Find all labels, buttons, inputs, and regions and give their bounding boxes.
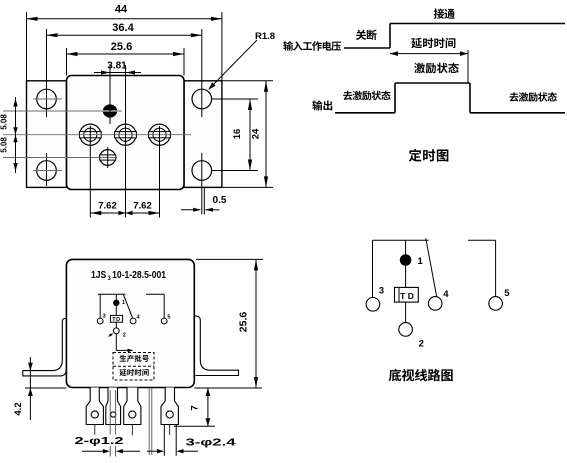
relay top view: right mounting flange — [184, 81, 222, 188]
solder lug pin A — [86, 388, 103, 425]
inner schematic: wire to pin1 dot — [115, 294, 117, 300]
hole centerlines vertical right — [201, 29, 203, 117]
svg-text:2-φ1.2: 2-φ1.2 — [75, 436, 125, 447]
inner schematic: pin4 circle — [130, 318, 136, 324]
svg-text:5: 5 — [167, 315, 170, 321]
svg-text:3.81: 3.81 — [107, 61, 127, 72]
screw terminal T3 — [149, 124, 170, 145]
svg-text:7.62: 7.62 — [98, 201, 117, 212]
svg-text:7: 7 — [190, 405, 201, 410]
circuit: pin4 — [428, 297, 442, 311]
svg-text:2: 2 — [123, 333, 126, 339]
terminal pin 2 (small screw) — [100, 150, 116, 166]
circuit: TD timer box — [395, 287, 419, 302]
pin A centerline stub — [94, 425, 96, 435]
inner schematic: top rail right — [146, 293, 164, 295]
phi1.2 wire pin (middle) — [148, 388, 150, 455]
inner schematic: polarity arrow at pin2 — [109, 334, 113, 337]
dimension 7.62 7.62 — [90, 212, 159, 214]
dashed marking box — [113, 353, 154, 381]
dimension 25.6 (front) — [196, 258, 263, 260]
svg-text:2: 2 — [419, 339, 424, 350]
label jietong (on) — [434, 9, 444, 19]
svg-text:1JS 3 10-1-28.5-001: 1JS 3 10-1-28.5-001 — [91, 269, 166, 282]
front view: right mounting bracket — [194, 316, 238, 376]
hole centerlines vertical left — [46, 29, 48, 117]
pin B phi1.2 tails — [109, 390, 111, 435]
body bottom extension right — [194, 387, 262, 389]
svg-text:7.62: 7.62 — [133, 201, 152, 212]
circuit: wire to pin3 — [372, 240, 374, 297]
timing: input low level line — [344, 47, 390, 49]
label guanduan (off) — [356, 30, 366, 40]
circuit: pin3 — [366, 298, 380, 312]
inner schematic: pin1 movable contact dot — [113, 300, 119, 306]
dimension 25.6 — [66, 48, 68, 76]
dimension 0.5 — [203, 188, 205, 215]
svg-text:T D: T D — [400, 291, 414, 301]
solder lug pin D — [161, 388, 178, 425]
lug bottom extension — [174, 425, 215, 427]
hole centerlines horizontal left holes — [33, 98, 62, 100]
pin C centerline — [131, 425, 133, 436]
label production batch number — [120, 355, 127, 362]
dimension 36.4 — [47, 34, 202, 36]
svg-text:1: 1 — [122, 300, 125, 306]
timing: output rising edge — [394, 83, 396, 113]
svg-text:5.08: 5.08 — [0, 114, 9, 130]
mounting hole top-right — [192, 89, 212, 109]
circuit: top rail left — [373, 239, 429, 241]
dimension 7 — [207, 388, 209, 426]
circuit: wire TD to pin2 — [405, 302, 407, 322]
timing: output high level — [395, 82, 470, 84]
timing: output low right — [470, 112, 565, 114]
flange bottom extension line to 24 dim — [184, 186, 273, 188]
circuit: wire to pin5 — [495, 240, 497, 296]
circuit: pin1 dot (common) — [400, 254, 412, 266]
mounting hole bottom-right — [192, 161, 212, 181]
circuit: top rail right — [468, 239, 496, 241]
svg-text:25.6: 25.6 — [238, 312, 250, 333]
svg-text:4: 4 — [443, 289, 449, 300]
svg-text:3-φ2.4: 3-φ2.4 — [186, 438, 237, 449]
mounting hole bottom-left — [37, 161, 57, 181]
svg-text:0.5: 0.5 — [213, 195, 227, 206]
pin D centerline stub — [169, 425, 171, 436]
dimension 16 — [249, 99, 251, 171]
label input working voltage — [283, 41, 293, 51]
svg-text:1: 1 — [418, 256, 424, 267]
caption dingshitu (timing diagram) — [409, 149, 422, 162]
svg-text:3: 3 — [103, 313, 106, 319]
svg-text:3: 3 — [379, 286, 384, 297]
timing: input rising edge — [389, 24, 391, 49]
svg-text:16: 16 — [232, 129, 243, 140]
timing: output low left — [335, 112, 395, 114]
inner schematic: pin5 circle — [161, 318, 167, 324]
terminal extension lines down to 7.62 dim — [89, 126, 91, 218]
hole centerlines horizontal right holes (16 dim extensions) — [212, 98, 258, 100]
circuit: wire pin1 to TD — [405, 266, 407, 287]
dimension 3.81 — [94, 72, 141, 74]
circuit: pin5 — [489, 297, 503, 311]
pin D phi2.4 tails — [163, 425, 165, 456]
inner schematic: pin2 circle — [113, 328, 119, 334]
inner schematic: wire to pin3 — [99, 294, 101, 318]
svg-text:24: 24 — [251, 128, 262, 139]
solder lug pin B (narrow) — [106, 388, 121, 425]
mounting hole top-left — [37, 89, 57, 109]
terminal pin 1 (filled oval) — [103, 104, 117, 117]
bottom dim phi2.4 — [147, 450, 158, 452]
circuit: pin2 — [399, 323, 413, 337]
inner schematic: switch arm to pin4 — [124, 295, 133, 318]
delay time extension line — [467, 50, 469, 83]
dimension 4.2 — [29, 357, 31, 420]
label shuchu (output) — [312, 100, 322, 110]
solder lug pin C — [124, 388, 141, 425]
label qu jili zhuangtai left — [343, 91, 352, 100]
dimension 24 — [265, 81, 267, 188]
flange top extension line to 24 dim — [222, 80, 273, 82]
inner schematic: wire below pin2 with arrow — [115, 334, 117, 351]
inner schematic: top rail left — [98, 293, 125, 295]
screw terminal T1 — [80, 124, 101, 145]
screw terminal T2 — [115, 124, 136, 145]
inner schematic: wire TD to pin2 — [115, 322, 117, 328]
svg-text:44: 44 — [115, 4, 128, 16]
caption bottom-view circuit diagram — [389, 369, 402, 382]
relay top view: left mounting flange — [27, 81, 67, 188]
circuit: switch arm to pin4 — [426, 238, 437, 296]
inner schematic: wire to pin5 — [163, 294, 165, 318]
bottom dim phi1.2 — [82, 450, 103, 452]
front view: relay body — [66, 259, 194, 387]
terminal row centerlines (grey) — [3, 110, 122, 112]
inner schematic: pin3 circle — [97, 318, 103, 324]
svg-text:4.2: 4.2 — [13, 402, 24, 415]
pin2 vertical centerline — [107, 147, 109, 168]
label jili zhuangtai (energized state) — [414, 63, 425, 74]
label qu jili zhuangtai right — [509, 92, 518, 101]
body bottom extension left — [25, 387, 66, 389]
front view: left mounting bracket — [23, 319, 67, 376]
svg-text:R1.8: R1.8 — [255, 31, 275, 42]
inner schematic: wire dot to TD — [115, 306, 117, 315]
dimension 44 — [26, 12, 28, 81]
timing: input high level line — [390, 23, 565, 25]
dimension 5.08 5.08 (left) — [15, 97, 17, 173]
inner schematic: TD timer box — [110, 315, 122, 322]
relay top view: body outline — [67, 76, 185, 190]
svg-text:25.6: 25.6 — [111, 41, 132, 53]
svg-text:5: 5 — [504, 288, 510, 299]
circuit: wire to pin1 — [405, 240, 407, 255]
delay time dimension line — [390, 53, 468, 55]
timing: output falling edge — [469, 83, 471, 113]
label yanshi shijian (delay time) — [411, 38, 422, 49]
pin1 vertical centerline / 3.81 extension — [109, 65, 111, 124]
label delay time (box) — [119, 369, 126, 376]
svg-text:5.08: 5.08 — [0, 137, 9, 153]
svg-text:36.4: 36.4 — [112, 22, 134, 34]
